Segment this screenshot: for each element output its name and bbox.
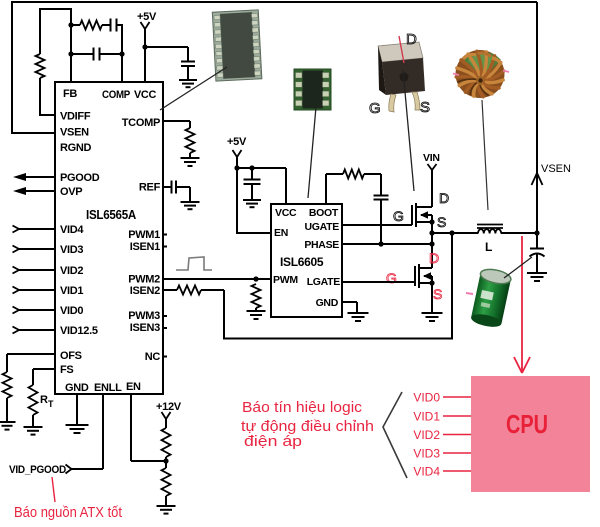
svg-text:Báo tín hiệu logic: Báo tín hiệu logic <box>242 399 363 416</box>
capacitor C5 (U2 VCC decoupling) <box>244 179 261 181</box>
wire ISEN2 to phase node <box>201 289 224 291</box>
wire LGATE to Q2 gate <box>342 281 415 283</box>
svg-text:PGOOD: PGOOD <box>60 172 100 184</box>
wire R6 to ground <box>6 398 8 421</box>
transistor Q2 (low-side NMOS) <box>414 266 416 286</box>
wire ISEN2 stub <box>163 289 177 291</box>
node +5V junction (U2) <box>234 165 239 170</box>
svg-text:Báo nguồn ATX tốt: Báo nguồn ATX tốt <box>14 504 123 521</box>
wire GND pin (U2) <box>342 301 357 303</box>
svg-text:ENLL: ENLL <box>94 382 122 394</box>
node Q2 source <box>429 280 434 285</box>
svg-text:ISL6565A: ISL6565A <box>86 208 136 222</box>
transistor Q1 (high-side NMOS) <box>411 205 413 225</box>
wire REF pin <box>163 186 172 188</box>
wire R1 to VDIFF <box>39 78 41 116</box>
node C5 junction <box>249 165 254 170</box>
wire top of FB loop <box>39 8 72 10</box>
wire VID1 to CPU <box>443 415 471 417</box>
node FB upper junction <box>68 22 73 27</box>
svg-text:ISL6605: ISL6605 <box>280 255 324 269</box>
wire COMP pin <box>121 54 123 82</box>
wire VSEN pin to left rail <box>12 132 55 134</box>
resistor R8 (lower divider) <box>162 468 171 496</box>
svg-text:điện áp: điện áp <box>244 433 302 450</box>
IC U1 ISL6565A body <box>55 82 163 394</box>
wire left rail vertical <box>11 1 13 134</box>
svg-text:OVP: OVP <box>60 186 82 198</box>
svg-text:+5V: +5V <box>227 136 247 148</box>
wire VID4 input <box>19 228 55 230</box>
svg-text:PWM3: PWM3 <box>128 310 160 322</box>
node VCC junction <box>142 44 147 49</box>
input chevron VID1 <box>13 287 20 294</box>
svg-text:COMP: COMP <box>102 89 130 101</box>
resistor R2 (FB-COMP series) <box>80 21 102 30</box>
ground (C5) <box>243 199 261 201</box>
wire VIN to Q1 drain <box>431 170 433 207</box>
svg-text:LGATE: LGATE <box>307 276 341 288</box>
wire R9 to C6 <box>364 173 381 175</box>
capacitor C1 (series with R2) <box>110 19 112 32</box>
svg-text:D: D <box>439 190 449 206</box>
wire VCC pin <box>144 47 146 82</box>
pin stub PWM1 <box>163 234 167 236</box>
svg-text:RGND: RGND <box>60 142 92 154</box>
photo electrolytic capacitor <box>470 267 512 329</box>
wire output node to C7 <box>536 233 538 248</box>
pin stub ISEN1 <box>163 246 167 248</box>
pulse waveform symbol <box>176 257 212 270</box>
pin stub ISEN3 <box>163 327 167 329</box>
arrow output to CPU (red) <box>521 236 523 371</box>
wire UGATE to Q1 gate <box>342 224 412 226</box>
ground (U2 GND) <box>348 312 369 314</box>
wire GND pin (U1) <box>76 394 78 424</box>
svg-text:VDIFF: VDIFF <box>60 111 91 123</box>
wire FB to C2 <box>71 53 93 55</box>
input chevron VID12.5 <box>13 327 20 334</box>
wire C2 to COMP node <box>100 53 123 55</box>
wire FB vertical <box>70 9 72 82</box>
highlight mark right (toroid) <box>503 71 509 73</box>
wire +5V rail to VCC (U2) <box>236 167 286 169</box>
IC U2 ISL6605 body <box>271 204 342 317</box>
svg-text:L: L <box>485 240 492 254</box>
capacitor C3 (VCC decoupling) <box>181 61 195 63</box>
svg-text:VID2: VID2 <box>413 428 440 442</box>
svg-text:UGATE: UGATE <box>305 221 340 233</box>
wire phase node to inductor <box>432 232 478 234</box>
svg-text:G: G <box>369 100 381 117</box>
wire top rail <box>11 1 537 3</box>
node bootstrap-phase junction <box>378 241 383 246</box>
wire C1 to COMP vertical <box>117 24 123 26</box>
highlight mark left (toroid) <box>453 74 459 76</box>
resistor R9 (BOOT) <box>343 170 364 179</box>
ground (TCOMP) <box>181 157 200 159</box>
svg-text:VIN: VIN <box>423 152 440 164</box>
node PWM2 pulldown junction <box>253 276 258 281</box>
svg-text:PWM2: PWM2 <box>128 274 160 286</box>
svg-text:+5V: +5V <box>137 11 157 23</box>
svg-text:R: R <box>40 394 48 406</box>
resistor R4 (PWM2 pulldown) <box>252 284 261 308</box>
pointer capacitor photo to C7 <box>504 257 532 278</box>
wire C3 to ground <box>187 66 189 79</box>
svg-text:+12V: +12V <box>156 401 182 413</box>
wire FB to R2 <box>71 24 80 26</box>
svg-text:PWM: PWM <box>273 274 298 286</box>
node COMP junction <box>119 51 124 56</box>
arrow VIN (down) <box>428 164 437 170</box>
svg-text:ISEN3: ISEN3 <box>130 322 160 334</box>
wire OFS pin <box>7 353 55 355</box>
ground (Q2 source) <box>422 312 443 314</box>
wire PHASE pin <box>342 243 432 245</box>
svg-text:D: D <box>429 250 439 266</box>
wire VID1 input <box>19 289 55 291</box>
wire VID3 input <box>19 248 55 250</box>
wire node to C5 <box>251 168 253 179</box>
supply +5V arrow (U1) <box>141 22 150 29</box>
svg-text:GND: GND <box>316 297 339 309</box>
ground (RT) <box>24 426 43 428</box>
svg-text:VID1: VID1 <box>413 410 440 424</box>
photo toroid inductor <box>456 50 505 98</box>
svg-text:VID0: VID0 <box>60 305 83 317</box>
wire C7 to ground <box>536 254 538 272</box>
highlight mark (capacitor) <box>466 293 473 294</box>
wire +5V to VCC node <box>144 29 146 47</box>
wire EN pin (U1) <box>130 394 132 461</box>
wire VID3 to CPU <box>443 452 471 454</box>
pointer transistor to Q1 <box>403 70 414 191</box>
wire PWM2 to U2 PWM <box>163 278 271 280</box>
pointer line to ATX note <box>52 477 55 502</box>
resistor RT <box>29 385 38 415</box>
svg-text:S: S <box>433 286 442 302</box>
wire EN (U2) <box>236 168 238 233</box>
svg-text:TCOMP: TCOMP <box>122 117 160 129</box>
supply +5V arrow (U2) <box>233 150 242 157</box>
node output junction <box>534 230 539 235</box>
wire R2 to C1 <box>102 24 110 26</box>
wire inductor to output node <box>501 232 537 234</box>
output arrow OVP <box>25 190 55 192</box>
svg-text:EN: EN <box>274 227 288 239</box>
wire R4 to ground <box>255 308 257 311</box>
svg-text:VID4: VID4 <box>413 465 440 479</box>
svg-text:ISEN1: ISEN1 <box>130 241 160 253</box>
input chevron VID3 <box>13 246 20 253</box>
svg-text:PHASE: PHASE <box>304 239 339 251</box>
node FB lower junction <box>68 51 73 56</box>
wire VID0 to CPU <box>443 396 471 398</box>
ground (U1 GND) <box>66 424 89 426</box>
svg-text:S: S <box>437 214 446 230</box>
input chevron VID4 <box>13 226 20 233</box>
wire VID2 to CPU <box>443 434 471 436</box>
svg-text:VID4: VID4 <box>60 224 84 236</box>
pointer D to transistor (red) <box>399 36 404 63</box>
svg-text:D: D <box>406 31 417 48</box>
pin stub PWM3 <box>163 315 167 317</box>
wire R3 to ground <box>189 153 191 158</box>
VID bus brace <box>383 392 407 478</box>
capacitor C2 (FB-COMP) <box>93 48 95 61</box>
svg-text:ISEN2: ISEN2 <box>130 285 160 297</box>
ground (REF) <box>181 201 200 203</box>
svg-text:GND: GND <box>65 382 89 394</box>
svg-text:FB: FB <box>63 88 77 100</box>
svg-text:BOOT: BOOT <box>309 207 339 219</box>
svg-text:VID12.5: VID12.5 <box>60 325 98 337</box>
svg-text:G: G <box>393 208 404 224</box>
resistor R5 (ISEN2) <box>177 286 201 295</box>
CPU block <box>471 376 590 492</box>
wire +12V to R7 <box>165 419 167 428</box>
wire C5 to ground <box>251 184 253 199</box>
svg-text:VID_PGOOD: VID_PGOOD <box>9 464 66 476</box>
resistor R7 (upper divider) <box>162 428 171 457</box>
svg-text:VID1: VID1 <box>60 285 83 297</box>
wire VID4 to CPU <box>443 470 471 472</box>
wire TCOMP pin <box>163 120 190 122</box>
inductor L1 <box>478 229 501 233</box>
wire VID12.5 input <box>19 329 55 331</box>
svg-text:VID3: VID3 <box>413 447 440 461</box>
wire RT to ground <box>32 415 34 427</box>
svg-text:VID2: VID2 <box>60 265 83 277</box>
wire Q1 source to phase node <box>431 222 433 268</box>
wire Q2 source to ground <box>431 283 433 312</box>
pointer photo to U2 <box>308 107 316 198</box>
photo transistor package (DPAK) <box>378 42 425 112</box>
ground (C7) <box>527 272 547 274</box>
wire VCC node to C3 <box>145 46 188 48</box>
pointer toroid to L1 <box>482 100 488 210</box>
pointer photo to U1 <box>160 67 227 110</box>
wire +5V to node (U2) <box>236 157 238 168</box>
ground (PWM2) <box>247 310 266 312</box>
wire VID0 input <box>19 309 55 311</box>
input chevron VID_PGOOD <box>66 465 72 474</box>
wire R8 to ground <box>165 461 167 468</box>
photo IC package (ISL6605) <box>294 69 331 110</box>
wire BOOT pin up <box>325 174 327 204</box>
wire VDIFF branch vertical <box>39 8 41 54</box>
svg-text:FS: FS <box>60 364 73 376</box>
resistor R1 (FB-VDIFF) <box>36 54 45 78</box>
svg-text:VID3: VID3 <box>60 244 83 256</box>
svg-text:REF: REF <box>139 182 161 194</box>
svg-text:VCC: VCC <box>275 207 297 219</box>
node phase-inductor junction <box>429 230 434 235</box>
svg-text:G: G <box>386 270 397 286</box>
input chevron VID2 <box>13 267 20 274</box>
wire VSEN rail down to output <box>536 2 538 233</box>
resistor R3 (TCOMP) <box>186 128 195 153</box>
capacitor C6 (bootstrap) <box>374 195 389 197</box>
wire ENLL pin <box>102 394 104 469</box>
ground (OFS) <box>0 421 16 423</box>
svg-text:PWM1: PWM1 <box>128 229 160 241</box>
svg-text:T: T <box>48 399 54 409</box>
capacitor C4 (REF) <box>171 181 173 194</box>
svg-text:S: S <box>420 99 430 116</box>
resistor R6 (OFS) <box>3 372 12 398</box>
node Q1 source <box>429 219 434 224</box>
svg-text:CPU: CPU <box>506 409 548 439</box>
svg-text:VID0: VID0 <box>413 391 440 405</box>
svg-text:VSEN: VSEN <box>541 163 571 175</box>
svg-text:OFS: OFS <box>60 350 82 362</box>
wire VID2 input <box>19 269 55 271</box>
node EN divider junction <box>163 458 168 463</box>
ground (C3) <box>179 79 197 81</box>
input chevron VID0 <box>13 307 20 314</box>
wire FS pin <box>33 368 55 370</box>
svg-text:NC: NC <box>145 351 161 363</box>
photo IC package (ISL6565A) <box>212 10 262 81</box>
svg-text:EN: EN <box>126 381 141 393</box>
supply +12V arrow <box>162 412 171 419</box>
wire C4 to ground <box>176 186 190 188</box>
output arrow PGOOD <box>25 176 55 178</box>
arrow VSEN (upward) <box>532 173 538 185</box>
svg-text:VCC: VCC <box>134 89 156 101</box>
node phase-isen junction <box>449 230 454 235</box>
svg-text:VSEN: VSEN <box>60 127 89 139</box>
wire C6 to phase <box>380 200 382 245</box>
wire R7 to node <box>165 457 167 461</box>
capacitor C7 (output) <box>530 248 544 250</box>
pin stub NC <box>163 356 167 358</box>
node phase-pin junction <box>429 241 434 246</box>
ground (EN divider) <box>157 505 176 507</box>
